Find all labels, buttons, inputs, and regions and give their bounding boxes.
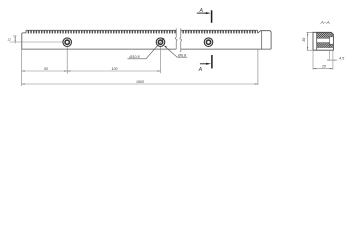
svg-text:Ø6.8: Ø6.8: [177, 54, 187, 58]
leader diameter 10.8: underline and diagonal to hole 2: [128, 38, 165, 59]
svg-text:4.5: 4.5: [339, 57, 344, 61]
section counterbore bottom line: [330, 43, 334, 45]
dimension line 1600: [22, 83, 258, 85]
section hatch top right block: [330, 32, 334, 37]
svg-text:20: 20: [321, 64, 326, 68]
svg-text:100: 100: [112, 67, 118, 71]
section dim 30: top arrow: [307, 32, 308, 35]
rack right end block: chamfer, top flat, right chamfer, right edge: [258, 31, 271, 49]
leader 6.8 arrowhead: [164, 46, 167, 48]
section dim 20: left arrow: [313, 68, 316, 69]
dimension line 100: [67, 70, 160, 72]
arrow 1600 right: [255, 83, 258, 84]
left small dimension: top tick: [13, 35, 17, 37]
section dim 20: dimension line: [313, 68, 333, 70]
section hatch top band: [317, 32, 330, 38]
section hatch lower band: [317, 43, 330, 48]
section dim 20: extension lines: [313, 51, 333, 70]
leader diameter 6.8: underline and diagonal to hole 2: [165, 46, 188, 57]
svg-text:12: 12: [8, 37, 12, 41]
section marker top: thick line: [211, 10, 213, 22]
hole 2 inner circle: [158, 40, 162, 44]
section marker bottom: arrow line: [200, 63, 208, 65]
svg-text:A: A: [198, 8, 203, 14]
rack bottom edge left of break: [22, 48, 176, 50]
svg-text:A: A: [198, 67, 203, 73]
section lower inner horizontal line: [317, 47, 334, 49]
section dim 30: bottom arrow: [307, 47, 308, 50]
extension line below hole 1: [66, 47, 68, 74]
rack teeth segment 1 (left of break): [26, 30, 176, 33]
arrow 1600 left: [22, 83, 25, 84]
svg-text:30: 30: [302, 38, 306, 42]
arrow 50 right: [64, 70, 67, 71]
section dim 30: extension ticks: [307, 32, 313, 50]
section hole bore top line: [317, 37, 330, 39]
rack body left edge and top-left corner: [22, 33, 26, 49]
section marker bottom: thick line: [211, 55, 213, 68]
section marker top: arrow line: [197, 12, 207, 14]
leader 10.8 arrowhead: [162, 38, 165, 41]
section dim 4.5: left outside arrow: [327, 59, 329, 62]
left small dimension line: [14, 36, 16, 44]
break line left: [175, 28, 177, 49]
dimension line 50: [22, 70, 68, 72]
section counterbore top line: [330, 36, 334, 38]
right end block inner vertical line: [261, 31, 263, 49]
hole 2 outer circle: [156, 38, 165, 47]
section marker top: arrowhead: [206, 12, 211, 14]
svg-text:A–A: A–A: [320, 20, 330, 26]
hole 1 inner circle: [65, 40, 69, 44]
section marker bottom: arrowhead: [206, 63, 211, 65]
svg-text:Ø10.8: Ø10.8: [128, 55, 140, 59]
svg-text:50: 50: [44, 67, 48, 71]
rack bottom edge right of break: [181, 48, 271, 50]
section dim 4.5: dimension line: [327, 59, 337, 61]
section hole bore bottom line: [317, 42, 330, 44]
svg-text:1600: 1600: [136, 80, 144, 84]
section dim 30: dimension line: [307, 32, 309, 50]
left small dimension up arrow: [15, 36, 16, 38]
break line right: [180, 28, 182, 52]
arrow 50 left: [22, 70, 25, 71]
extension line at end of teeth (1600): [257, 49, 259, 85]
hole 1 outer circle: [63, 38, 72, 47]
extension line below hole 2: [160, 47, 162, 74]
section tooth face inner vertical line: [316, 32, 318, 50]
arrow 100 left: [67, 70, 70, 71]
section outer outline with top-right chamfer: [313, 32, 333, 50]
hole 3 inner circle: [206, 40, 210, 44]
section dim 4.5: extension line from counterbore: [329, 50, 331, 60]
extension line at rack left end: [21, 49, 23, 86]
section counterbore face vertical line: [329, 37, 331, 48]
rack teeth segment 2 (right of break): [181, 30, 258, 33]
left small dimension down arrow: [15, 40, 16, 42]
section dim 20: right arrow: [330, 68, 333, 69]
section dim 4.5: right outside arrow: [333, 59, 335, 62]
hole centerline (left, to hole 1): [10, 41, 63, 43]
section hatch lower right block: [330, 44, 334, 47]
arrow 100 right: [157, 70, 160, 71]
hole 3 outer circle: [204, 38, 213, 47]
